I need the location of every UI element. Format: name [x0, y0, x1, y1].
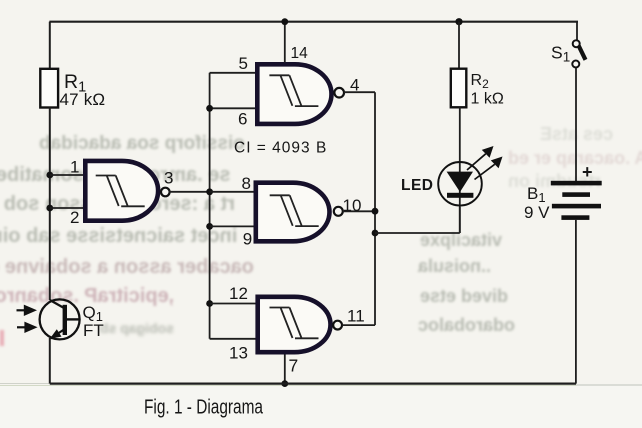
svg-text:Fig. 1 - Diagrama: Fig. 1 - Diagrama [144, 397, 264, 419]
node LED branch junction [372, 230, 379, 237]
wire pin 5 [210, 72, 256, 74]
label R1 [60, 43, 593, 419]
node pin14 junction [281, 18, 288, 25]
wire R2 to LED (passes through LED circle) [459, 107, 461, 233]
node pin2 junction [46, 205, 53, 212]
svg-text:R2: R2 [471, 72, 490, 91]
output bubble pin 4 [334, 88, 344, 98]
svg-text:FT: FT [83, 321, 104, 340]
transistor Q1 base lead [67, 318, 80, 320]
faint greenish scan line under bottom rail [0, 385, 579, 386]
node pin6 junction [206, 105, 213, 112]
node pin7 junction on bottom rail [281, 380, 288, 387]
nand gate U1c CI4093 (pins 8,9 out 10) [256, 183, 330, 242]
svg-text:12: 12 [229, 284, 248, 303]
faint gray dashes left of rail start [0, 383, 49, 385]
wire pin 6 [210, 107, 256, 109]
transistor Q1 emitter arrow [50, 329, 62, 339]
wire pin 12 [210, 303, 257, 305]
LED D1 circle [438, 162, 482, 206]
node R2 top junction [455, 18, 462, 25]
schmitt glyph U1b [269, 75, 318, 106]
wire out 11 [342, 324, 375, 326]
wire input bus vertical [209, 73, 211, 339]
wire LED cathode vertical [459, 207, 461, 233]
wire top rail [49, 21, 578, 23]
resistor R1 [40, 69, 58, 108]
wire pin 9 [210, 225, 255, 227]
svg-text:5: 5 [239, 54, 248, 73]
svg-text:13: 13 [229, 344, 248, 363]
wire out 10 [343, 210, 375, 212]
wire left vertical (R1 to Q1 collector) [49, 108, 51, 301]
battery B1 plate 3 long [552, 204, 601, 209]
node pin1 junction [46, 172, 53, 179]
pink scan smudge left edge [0, 330, 4, 346]
wire left vertical upper (rail to R1) [49, 22, 51, 69]
switch S1 bottom contact [572, 61, 579, 68]
wire pin 7 vertical [284, 354, 286, 383]
svg-text:9 V: 9 V [524, 203, 550, 222]
svg-text:CI = 4093 B: CI = 4093 B [234, 140, 327, 157]
battery B1 plate 4 short [561, 215, 589, 220]
nand gate U1a CI4093 (pins 1,2 out 3) [85, 161, 158, 221]
schmitt glyph U1c [270, 195, 319, 226]
svg-text:7: 7 [289, 356, 299, 376]
schmitt glyph U1a [96, 176, 145, 207]
svg-text:14: 14 [291, 45, 309, 62]
svg-text:LED: LED [401, 177, 434, 194]
node pin12 junction [206, 300, 213, 307]
wire out 3 to bus [169, 191, 210, 193]
transistor Q1 base bar [63, 305, 67, 335]
lighter bottom margin strip [0, 386, 642, 428]
svg-text:9: 9 [243, 229, 252, 248]
LED cathode bar [447, 193, 473, 198]
wire battery to bottom rail [575, 220, 577, 384]
light arrow 1 into Q1 [17, 309, 26, 311]
switch S1 lever [579, 46, 586, 60]
wire pin 14 vertical [284, 22, 286, 63]
LED triangle [447, 172, 473, 192]
wire pin 1 [50, 174, 84, 176]
battery B1 plate 1 long [551, 181, 602, 186]
LED arrow 1 [467, 154, 486, 170]
schmitt glyph U1d [270, 308, 319, 339]
node out3/pin8 junction [206, 188, 213, 195]
transistor Q1 emitter [50, 330, 64, 339]
transistor Q1 collector [50, 300, 64, 308]
switch S1 top contact [573, 40, 580, 47]
svg-text:1 kΩ: 1 kΩ [471, 91, 504, 108]
bleed-through ghost text right block [540, 124, 613, 145]
transistor Q1 circle [40, 299, 80, 339]
wire rail to R2 [458, 22, 460, 69]
light arrow 2 into Q1 [17, 326, 26, 328]
battery B1 plate 2 short [562, 192, 590, 197]
output bubble pin 10 [334, 207, 343, 216]
wire S1 to battery [575, 68, 577, 181]
svg-text:11: 11 [347, 307, 365, 326]
svg-text:10: 10 [343, 196, 362, 215]
wire pin 13 [210, 338, 257, 340]
wire pin 2 [50, 207, 84, 209]
output bubble pin 11 [333, 321, 342, 330]
faint gray scan line bottom right [576, 384, 642, 386]
svg-text:3: 3 [164, 169, 173, 188]
wire LED branch horizontal [375, 232, 460, 234]
svg-text:B1: B1 [527, 184, 546, 205]
wire bottom rail [50, 383, 576, 385]
svg-text:47 kΩ: 47 kΩ [60, 90, 106, 109]
bleed-through ghost text left block [39, 133, 245, 155]
svg-text:2: 2 [70, 208, 79, 227]
nand gate U1b CI4093 (pins 5,6 out 4) [257, 64, 331, 124]
svg-text:4: 4 [350, 76, 359, 95]
output bubble pin 3 [161, 188, 170, 197]
svg-text:6: 6 [238, 109, 247, 128]
svg-text:+: + [582, 162, 593, 182]
wire Q1 emitter to bottom rail [49, 338, 51, 384]
node pin9 junction [206, 223, 213, 230]
wire pin 8 [210, 191, 255, 193]
svg-text:1: 1 [70, 158, 79, 177]
LED arrow 2 [475, 164, 495, 179]
node out10 junction [372, 208, 379, 215]
resistor R2 [451, 69, 467, 108]
nand gate U1d CI4093 (pins 12,13 out 11) [258, 297, 331, 352]
wire rail corner to S1 [576, 22, 578, 41]
wire out 4 [344, 91, 375, 93]
svg-text:8: 8 [242, 174, 251, 193]
svg-text:S1: S1 [551, 43, 570, 65]
wire output bus vertical [374, 92, 376, 325]
